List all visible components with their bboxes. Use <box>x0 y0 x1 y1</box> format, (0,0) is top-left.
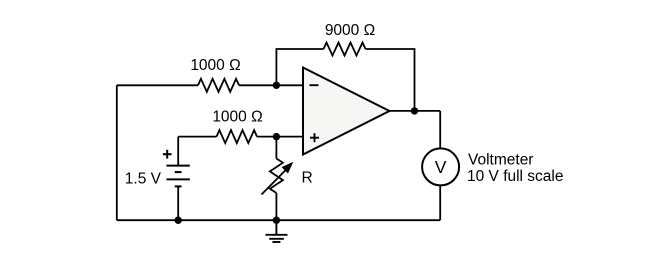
label R <box>302 170 313 187</box>
wire voltmeter to bottom rail <box>439 185 441 220</box>
wire feedback right branch <box>366 49 415 111</box>
svg-text:1.5 V: 1.5 V <box>125 171 162 188</box>
wire variable resistor to bottom rail <box>275 193 277 220</box>
resistor 1000 ohm (non-inverting input) <box>217 130 258 143</box>
resistor 9000 ohm (feedback) <box>324 43 366 56</box>
label 9000 ohm (feedback) <box>325 22 375 39</box>
variable resistor R <box>270 159 283 194</box>
label 1000 ohm (inverting input) <box>190 57 240 74</box>
node junction dot output <box>411 107 418 114</box>
battery B1 <box>167 166 190 187</box>
variable resistor R arrow <box>262 162 294 195</box>
node junction dot battery to rail <box>175 217 182 224</box>
svg-text:1000 Ω: 1000 Ω <box>190 57 240 74</box>
node junction dot ground <box>273 217 280 224</box>
svg-text:Voltmeter: Voltmeter <box>468 152 533 169</box>
svg-text:10 V full scale: 10 V full scale <box>467 168 564 185</box>
wire non-inverting node to variable resistor <box>275 137 277 159</box>
wire output to voltmeter <box>439 111 441 148</box>
resistor 1000 ohm (inverting input) <box>198 79 239 92</box>
node junction dot non-inverting input <box>273 133 280 140</box>
wire bottom rail <box>117 219 440 221</box>
label 1000 ohm (non-inverting input) <box>212 109 262 126</box>
label 1.5 V <box>125 171 162 188</box>
svg-text:1000 Ω: 1000 Ω <box>212 109 262 126</box>
wire feedback left branch <box>276 49 323 85</box>
svg-text:V: V <box>435 157 447 177</box>
voltmeter M1 <box>422 148 459 185</box>
wire left vertical rail <box>116 85 118 220</box>
battery B1 wire top <box>177 137 179 166</box>
node junction dot inverting input <box>273 82 280 89</box>
svg-text:R: R <box>302 170 313 187</box>
ground <box>266 220 288 242</box>
voltmeter label V <box>435 157 447 177</box>
wire op-amp output <box>390 110 441 112</box>
battery plus terminal label <box>163 150 172 159</box>
op-amp non-inverting pin label + <box>310 133 319 142</box>
svg-text:9000 Ω: 9000 Ω <box>325 22 375 39</box>
op-amp U1 <box>303 68 390 155</box>
wire inverting input row <box>117 84 303 86</box>
label Voltmeter 10 V full scale <box>467 152 564 185</box>
op-amp inverting pin label - <box>310 84 319 86</box>
wire non-inverting input row <box>178 136 302 138</box>
battery B1 wire bottom <box>177 186 179 220</box>
